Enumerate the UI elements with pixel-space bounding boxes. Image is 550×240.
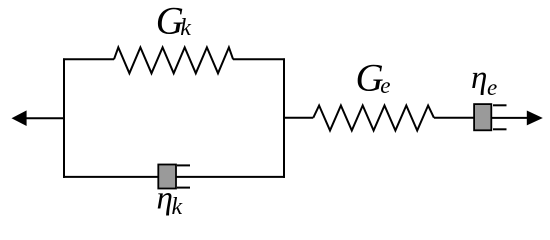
wire top-right horizontal xyxy=(233,58,285,60)
svg-text:k: k xyxy=(172,194,183,220)
wire left vertical of parallel box xyxy=(63,58,65,177)
svg-text:k: k xyxy=(180,15,191,41)
label G_e xyxy=(356,57,391,100)
wire right vertical of parallel box xyxy=(283,58,285,177)
wire bottom horizontal of parallel box xyxy=(63,176,285,178)
dashpot eta_e piston box xyxy=(474,104,491,130)
svg-text:e: e xyxy=(380,73,390,98)
right force arrowhead xyxy=(527,111,543,126)
svg-text:e: e xyxy=(487,75,497,100)
wire middle stub from box to spring G_e xyxy=(284,117,313,119)
svg-text:η: η xyxy=(471,60,487,96)
left force arrowhead xyxy=(12,110,27,126)
spring G_e zigzag xyxy=(313,106,434,131)
wire from spring G_e to dashpot eta_e xyxy=(434,117,475,119)
spring G_k zigzag xyxy=(114,47,233,73)
dashpot eta_k piston box xyxy=(158,165,176,189)
dashpot eta_k top cylinder wall xyxy=(177,164,190,166)
right force arrow shaft xyxy=(491,117,527,119)
dashpot eta_e top cylinder wall xyxy=(493,104,507,106)
left force arrow shaft xyxy=(26,117,65,119)
dashpot eta_k bottom cylinder wall xyxy=(177,187,190,189)
label eta_k xyxy=(157,181,183,221)
svg-text:η: η xyxy=(157,181,173,217)
dashpot eta_e bottom cylinder wall xyxy=(493,128,507,130)
label eta_e xyxy=(471,60,497,100)
wire top-left horizontal xyxy=(63,58,114,60)
label G_k xyxy=(156,0,192,43)
